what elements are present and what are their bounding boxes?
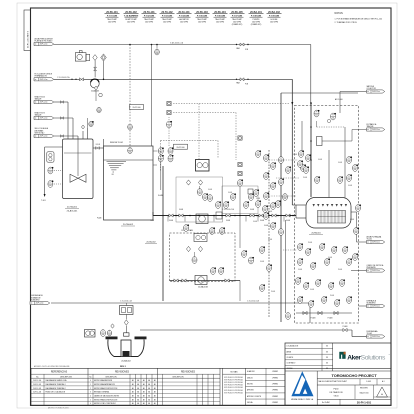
bubbles below header <box>184 224 190 231</box>
svg-text:DESCRIPCION: DESCRIPCION <box>172 376 184 378</box>
svg-text:F-64B: F-64B <box>228 192 232 194</box>
FI bubble under fresh water header <box>156 44 158 46</box>
bubble column x~266-273 <box>264 154 270 161</box>
agitator impeller 20-AG-001 <box>70 174 86 182</box>
stacked instrument squares right <box>238 136 242 140</box>
svg-text:F-64B: F-64B <box>253 221 257 223</box>
pipe <box>54 135 78 137</box>
pump 20-BA-001B <box>195 276 207 285</box>
svg-text:064: 064 <box>287 317 290 319</box>
svg-text:20-PI-100: 20-PI-100 <box>177 147 185 149</box>
svg-text:xx: xx <box>367 91 369 93</box>
svg-text:NOTAS:: NOTAS: <box>335 12 344 15</box>
pipe riser <box>77 136 79 139</box>
Minera Chinalco triangle logo <box>291 371 313 396</box>
svg-text:064: 064 <box>305 171 308 173</box>
svg-text:EMITIDO COMO CONSTRUIDO: EMITIDO COMO CONSTRUIDO <box>94 403 117 405</box>
svg-text:064: 064 <box>330 287 333 289</box>
svg-text:F1B: F1B <box>245 49 248 51</box>
svg-text:064: 064 <box>102 334 105 336</box>
reference box label 2 <box>174 144 188 149</box>
svg-text:064: 064 <box>280 183 283 185</box>
double diamond fitting <box>101 54 107 61</box>
svg-text:™: ™ <box>388 354 390 357</box>
svg-text:xx: xx <box>35 102 37 104</box>
drop from control box <box>125 315 127 320</box>
svg-text:20-TA-102: 20-TA-102 <box>161 11 173 14</box>
svg-text:100 GPM: 100 GPM <box>198 21 206 23</box>
svg-text:TANQUE: TANQUE <box>35 97 43 100</box>
svg-text:064: 064 <box>284 198 287 200</box>
short stubs below header <box>167 216 169 222</box>
transfer line T1 to T2 <box>93 147 104 149</box>
control station box with two circles <box>196 160 210 172</box>
svg-text:20-PI-1-1xx: 20-PI-1-1xx <box>372 270 380 272</box>
svg-text:F-64B: F-64B <box>268 239 272 241</box>
svg-text:100 GPM: 100 GPM <box>216 21 224 23</box>
svg-text:P-64B: P-64B <box>303 177 307 179</box>
svg-text:xx: xx <box>35 44 37 46</box>
svg-text:064: 064 <box>261 251 264 253</box>
svg-text:F-64B: F-64B <box>264 225 268 227</box>
second enclosure right <box>222 186 258 214</box>
svg-text:T.B.D: T.B.D <box>333 395 339 397</box>
svg-text:P-64B: P-64B <box>338 269 342 271</box>
svg-text:20-PI-1-1xx: 20-PI-1-1xx <box>372 306 380 308</box>
project band TOROMOCHO <box>316 371 318 405</box>
svg-text:AGITATOR: AGITATOR <box>179 18 189 21</box>
svg-text:20-PI-1-1xx: 20-PI-1-1xx <box>40 102 48 104</box>
dashed signal interconnects in box <box>269 159 298 161</box>
pump 20-BA-001A on header <box>196 214 208 224</box>
svg-text:F-64B: F-64B <box>310 289 314 291</box>
diamond strainer <box>186 180 190 185</box>
svg-text:P-102 A/B: P-102 A/B <box>144 14 155 17</box>
svg-text:20-PI-1-1xx: 20-PI-1-1xx <box>372 91 380 93</box>
instrument bubble <box>354 227 360 234</box>
svg-text:20-PI-1-1xx: 20-PI-1-1xx <box>36 303 44 305</box>
svg-text:F1B: F1B <box>245 84 248 86</box>
svg-text:xx: xx <box>35 136 37 138</box>
svg-text:PREPARACION: PREPARACION <box>35 75 48 78</box>
svg-text:064: 064 <box>307 253 310 255</box>
pipe to flag <box>322 140 352 142</box>
svg-text:P-107 A/B: P-107 A/B <box>232 14 243 17</box>
svg-text:064: 064 <box>209 199 212 201</box>
svg-text:20-TA-001: 20-TA-001 <box>67 206 78 209</box>
svg-text:064: 064 <box>348 263 351 265</box>
pipe <box>54 101 68 103</box>
svg-text:DESCRIPCION: DESCRIPCION <box>60 376 73 378</box>
vessel right outlet <box>351 211 357 213</box>
svg-text:064: 064 <box>245 206 248 208</box>
svg-text:064: 064 <box>307 159 310 161</box>
svg-text:064: 064 <box>332 118 335 120</box>
svg-text:J.PEREZ: J.PEREZ <box>272 402 278 404</box>
vessel internal nozzles <box>313 204 315 207</box>
valve on main run (downstream) <box>240 78 244 81</box>
level hatch marks T2 <box>107 161 127 163</box>
svg-text:064: 064 <box>339 181 342 183</box>
svg-text:J.PEREZ: J.PEREZ <box>272 390 278 392</box>
instrument bubble <box>219 267 225 274</box>
signatures table <box>284 368 286 405</box>
svg-text:F-64B: F-64B <box>150 220 154 222</box>
svg-text:064: 064 <box>315 115 318 117</box>
svg-text:064: 064 <box>265 177 268 179</box>
instrument square FIC <box>167 101 171 105</box>
svg-text:064: 064 <box>204 198 207 200</box>
metering pump on flocculant line <box>90 79 99 88</box>
stub from long line to sump control box <box>125 303 127 306</box>
signal line <box>54 170 63 172</box>
svg-text:J.PEREZ: J.PEREZ <box>272 396 278 398</box>
svg-text:F-64B: F-64B <box>298 269 302 271</box>
svg-text:064: 064 <box>169 160 172 162</box>
svg-text:TAG PUMP: TAG PUMP <box>232 18 242 21</box>
svg-text:064: 064 <box>299 248 302 250</box>
svg-text:xx: xx <box>367 129 369 131</box>
svg-text:064: 064 <box>264 210 267 212</box>
svg-text:F-64B: F-64B <box>328 257 332 259</box>
svg-text:20-FA-101: 20-FA-101 <box>178 11 190 14</box>
svg-text:F-64B: F-64B <box>348 185 352 187</box>
svg-text:20-PI-1-1xx: 20-PI-1-1xx <box>372 242 380 244</box>
bubble cluster left-in-box <box>299 150 305 157</box>
pipe: fresh water header <box>54 44 311 46</box>
svg-text:064: 064 <box>265 197 268 199</box>
pipe to flag <box>359 305 367 307</box>
svg-text:064: 064 <box>108 334 111 336</box>
tank 20-TA-001 agitated <box>63 139 94 199</box>
svg-text:064: 064 <box>355 232 358 234</box>
title block outline <box>285 343 391 405</box>
reference/revision tables band <box>31 368 391 405</box>
svg-text:20-PI-1-001: 20-PI-1-001 <box>357 400 372 404</box>
vertical drawing-number box top-left <box>24 10 31 51</box>
drop inside box <box>339 92 341 114</box>
svg-text:064: 064 <box>49 172 52 174</box>
svg-text:20-PI-1-101: 20-PI-1-101 <box>33 384 41 386</box>
svg-text:100 GPM: 100 GPM <box>127 21 135 23</box>
svg-text:20-BA-003: 20-BA-003 <box>91 90 99 93</box>
stub <box>87 118 89 128</box>
svg-text:064: 064 <box>169 152 172 154</box>
svg-text:064: 064 <box>185 229 188 231</box>
flag right y=242 <box>367 240 385 243</box>
svg-text:F-64B: F-64B <box>286 220 290 222</box>
pipe: flocculant run <box>54 78 293 80</box>
svg-text:SUMIDERO: SUMIDERO <box>31 299 41 301</box>
agitator shaft <box>77 139 79 176</box>
bubbles top of dashed box <box>314 110 320 117</box>
inlet flag: sump discharge <box>30 301 50 304</box>
svg-text:P-106 A/B: P-106 A/B <box>215 14 226 17</box>
svg-text:REBOSE TK-002: REBOSE TK-002 <box>110 142 123 144</box>
svg-text:20-BA-101: 20-BA-101 <box>250 11 262 14</box>
vertical line right of T2 <box>160 162 162 190</box>
svg-text:064: 064 <box>220 272 223 274</box>
sump discharge line <box>140 329 352 331</box>
vertical line x=163 header to lower line <box>162 166 164 301</box>
svg-text:VER NOTA 2: VER NOTA 2 <box>35 131 45 134</box>
svg-text:(STAND BY): (STAND BY) <box>251 23 262 26</box>
small box beside x=311 line <box>317 137 323 146</box>
svg-text:064: 064 <box>250 198 253 200</box>
svg-text:064: 064 <box>287 171 290 173</box>
svg-text:064: 064 <box>326 263 329 265</box>
svg-text:064: 064 <box>305 287 308 289</box>
inlet flag: reagent A <box>34 100 54 103</box>
svg-text:MA GULCHER EXTRACTION PLANT: MA GULCHER EXTRACTION PLANT <box>319 380 347 383</box>
instrument bubble <box>101 330 106 337</box>
svg-text:J.PEREZ: J.PEREZ <box>272 377 278 379</box>
svg-text:064: 064 <box>348 179 351 181</box>
valve on flocculant run <box>80 78 84 81</box>
filter vessel 20-FA-001 <box>306 198 351 229</box>
svg-text:064: 064 <box>348 301 351 303</box>
bubbles above vessel <box>315 176 321 183</box>
svg-text:064: 064 <box>312 267 315 269</box>
diamond strainer <box>198 246 202 251</box>
svg-text:064: 064 <box>193 261 196 263</box>
svg-text:TAG PUMP: TAG PUMP <box>197 18 207 21</box>
svg-text:20-PI-1-1xx: 20-PI-1-1xx <box>372 336 380 338</box>
svg-text:20-PI-1-1xx: 20-PI-1-1xx <box>40 44 48 46</box>
sump control box <box>120 306 134 315</box>
signal drop <box>168 128 170 146</box>
solid enclosure right <box>281 92 358 94</box>
svg-text:TK-201: TK-201 <box>367 239 373 241</box>
svg-text:100 GPM: 100 GPM <box>180 21 188 23</box>
svg-text:064: 064 <box>168 126 171 128</box>
svg-text:REV 2: REV 2 <box>120 366 127 368</box>
standby pump line <box>170 280 241 282</box>
pipe: drop at x=292 to vessel inlet <box>291 79 293 205</box>
svg-text:064: 064 <box>272 187 275 189</box>
svg-text:DESCRIPCION: DESCRIPCION <box>105 376 117 378</box>
svg-text:F-64B: F-64B <box>226 220 230 222</box>
svg-text:064: 064 <box>257 155 260 157</box>
svg-text:(STAND BY): (STAND BY) <box>232 23 243 26</box>
svg-text:AkerSolutions: AkerSolutions <box>347 354 386 361</box>
junction dots on header <box>162 215 164 217</box>
REVISIONES table 2 <box>219 368 221 405</box>
svg-text:064: 064 <box>272 207 275 209</box>
NOTA box <box>222 368 224 405</box>
pipe: drop at x=311 <box>310 45 312 106</box>
svg-text:064: 064 <box>341 284 344 286</box>
riser from skid to flocculant run <box>94 60 96 77</box>
svg-text:P-64B: P-64B <box>330 295 334 297</box>
instrument bubble <box>249 257 255 264</box>
svg-text:NOTAS: NOTAS <box>230 371 238 374</box>
liquid level line T1 <box>64 152 92 154</box>
line inside box bottom <box>296 312 352 314</box>
svg-text:xx: xx <box>35 118 37 120</box>
discharge valve <box>343 328 347 331</box>
diamond fitting <box>81 125 84 129</box>
more header bubbles <box>203 193 209 200</box>
bubbles above header <box>216 201 222 208</box>
REFERENCIAS table <box>87 368 89 405</box>
standby pump dashed enclosure <box>170 233 236 282</box>
svg-text:F-64B: F-64B <box>97 218 101 220</box>
svg-text:064: 064 <box>217 206 220 208</box>
svg-text:P-105 A/B: P-105 A/B <box>197 14 208 17</box>
svg-text:P-104 A/B: P-104 A/B <box>179 14 190 17</box>
svg-text:20-BA-001B: 20-BA-001B <box>198 286 209 289</box>
svg-text:F-64B: F-64B <box>179 209 183 211</box>
svg-text:064: 064 <box>160 160 163 162</box>
manifold to vessel inlets <box>295 205 297 218</box>
svg-text:20-AG-001: 20-AG-001 <box>67 210 78 213</box>
flag right y=270.5 <box>367 269 385 272</box>
svg-text:20-PA-103: 20-PA-103 <box>196 11 208 14</box>
inlet flag: reagent B <box>34 116 54 119</box>
svg-text:064: 064 <box>354 169 357 171</box>
signal line dashed <box>173 112 236 114</box>
svg-text:064: 064 <box>129 152 132 154</box>
svg-text:F-64B: F-64B <box>260 261 264 263</box>
svg-text:P&ID: P&ID <box>333 388 339 390</box>
sump pump 20-BA-002 vertical pump symbol <box>106 337 118 340</box>
svg-text:FILTRACION: FILTRACION <box>330 391 343 394</box>
svg-text:20-PI-1-1xx: 20-PI-1-1xx <box>372 129 380 131</box>
svg-text:xx: xx <box>31 303 33 305</box>
AkerSolutions logo <box>339 352 390 362</box>
water feed drop into T2 (dashed, level instruments) <box>129 44 131 46</box>
instrument bubble <box>356 204 362 211</box>
svg-text:DESCARTE: DESCARTE <box>367 266 377 269</box>
svg-text:T-14 BARREN: T-14 BARREN <box>124 14 139 17</box>
svg-text:AP-1-100: AP-1-100 <box>335 98 343 101</box>
svg-text:064: 064 <box>257 205 260 207</box>
flag right y=306 <box>367 304 385 307</box>
arrowhead on x=311 line <box>310 103 312 106</box>
svg-text:1. POR NORMAS GENERALES DE DIB: 1. POR NORMAS GENERALES DE DIBUJO VER PI… <box>335 18 382 21</box>
svg-text:REFERENCIAS: REFERENCIAS <box>51 371 68 374</box>
instrument bubble <box>238 179 244 186</box>
water feed drop to T2 top <box>151 44 153 46</box>
valves bottom of dashed box <box>303 311 307 314</box>
svg-text:P-64B: P-64B <box>268 211 272 213</box>
instrument bubble <box>211 267 217 274</box>
svg-text:100 GPM: 100 GPM <box>270 21 278 23</box>
two-circle box left of sump <box>85 330 96 338</box>
more junction dots <box>175 215 177 217</box>
svg-text:064: 064 <box>265 217 268 219</box>
svg-text:F-64B: F-64B <box>169 220 173 222</box>
overflow weir line above T2 <box>103 139 105 146</box>
svg-text:064: 064 <box>261 289 264 291</box>
svg-text:20-PA-102: 20-PA-102 <box>125 11 137 14</box>
pipe riser <box>72 118 74 139</box>
svg-text:064: 064 <box>265 159 268 161</box>
svg-text:xx: xx <box>367 270 369 272</box>
tap line <box>153 150 158 152</box>
svg-text:F-64B: F-64B <box>293 154 297 156</box>
extra vertical in box <box>285 220 287 313</box>
svg-text:064: 064 <box>250 262 253 264</box>
svg-text:064: 064 <box>268 269 271 271</box>
svg-text:TAG PUMP: TAG PUMP <box>162 18 172 21</box>
svg-text:100 GPM: 100 GPM <box>163 21 171 23</box>
inlet flag: seal water <box>34 134 54 137</box>
drop into dashed box <box>309 303 311 323</box>
svg-text:064: 064 <box>272 167 275 169</box>
flag right y=336 <box>367 335 385 338</box>
pipe: riser to tank nozzle <box>67 102 69 139</box>
svg-text:064: 064 <box>232 198 235 200</box>
svg-text:P-103 A/B: P-103 A/B <box>162 14 173 17</box>
svg-text:F-64B: F-64B <box>250 209 254 211</box>
bubbles right side of box <box>347 156 353 163</box>
svg-text:064: 064 <box>49 185 52 187</box>
diamond fitting <box>94 86 97 90</box>
tank 20-TA-002 basin <box>104 146 154 220</box>
bubbles lower dashed box <box>298 243 304 250</box>
svg-text:064: 064 <box>310 305 313 307</box>
long pipe y=303 <box>51 302 310 304</box>
svg-text:P-101 A/B: P-101 A/B <box>107 14 118 17</box>
instrument bubble LI <box>48 167 54 174</box>
instrument bubble <box>89 121 94 127</box>
stamp triangle <box>377 387 388 397</box>
level gauge bracket left of T1 <box>47 152 54 162</box>
svg-text:064: 064 <box>348 161 351 163</box>
svg-text:064: 064 <box>255 194 258 196</box>
instrument square FIT <box>167 110 171 114</box>
dashed battery-limit box right <box>295 106 359 324</box>
svg-text:REVISIONES: REVISIONES <box>181 372 196 374</box>
svg-text:064: 064 <box>300 155 303 157</box>
svg-text:064: 064 <box>129 128 132 130</box>
svg-text:064: 064 <box>297 282 300 284</box>
inlet flag: flocculant <box>34 78 54 81</box>
extra verticals inside dashed box <box>301 121 303 151</box>
svg-text:F-64B: F-64B <box>256 198 260 200</box>
svg-text:F-64B: F-64B <box>318 159 322 161</box>
svg-text:064: 064 <box>280 161 283 163</box>
svg-text:REVISIONES: REVISIONES <box>115 372 130 374</box>
instrument bubble PI <box>197 189 202 196</box>
valve on transfer line <box>96 147 100 150</box>
dashed vertical line x=269 <box>268 150 270 318</box>
instrument bubble FY <box>167 121 173 128</box>
diamond strainer <box>198 180 202 185</box>
vessel internal element hatched <box>318 211 346 224</box>
svg-text:064: 064 <box>299 263 302 265</box>
svg-text:20-FA-001: 20-FA-001 <box>311 232 321 235</box>
drain arrowhead <box>44 194 46 197</box>
svg-text:P-108 A/B: P-108 A/B <box>251 14 262 17</box>
svg-text:20-TA-002: 20-TA-002 <box>146 241 156 244</box>
svg-text:064: 064 <box>277 205 280 207</box>
instrument bubble <box>192 257 197 264</box>
svg-text:REVISO: REVISO <box>247 384 254 386</box>
svg-text:xx: xx <box>367 242 369 244</box>
svg-text:064: 064 <box>98 111 101 113</box>
svg-text:F-64B: F-64B <box>350 219 354 221</box>
svg-text:P-64B: P-64B <box>308 242 312 244</box>
svg-text:COLECTOR: COLECTOR <box>367 88 377 90</box>
svg-text:064: 064 <box>280 233 283 235</box>
svg-text:No: No <box>90 376 92 378</box>
main slurry header <box>153 215 296 217</box>
more bubbles column x262-290 <box>264 212 270 219</box>
svg-text:064: 064 <box>90 125 93 127</box>
